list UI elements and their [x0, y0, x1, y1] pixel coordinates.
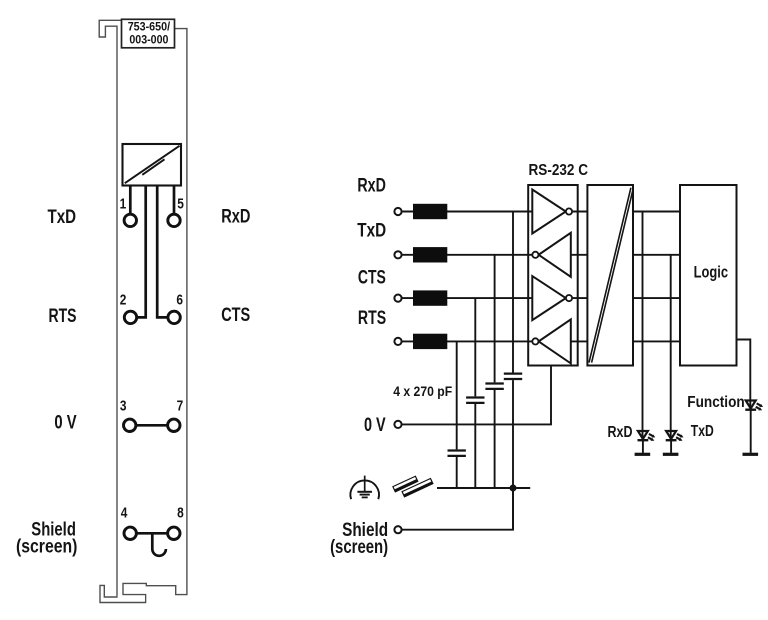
- filter L1 (RxD): [413, 204, 447, 219]
- earth ground symbol: [350, 476, 379, 500]
- svg-text:3: 3: [120, 398, 127, 415]
- pin 4: [124, 527, 136, 539]
- pin 1: [124, 214, 136, 226]
- svg-text:8: 8: [177, 505, 184, 522]
- capacitor C2 line (from CTS row): [474, 298, 476, 396]
- svg-text:RTS: RTS: [358, 307, 386, 329]
- ground bar TxD LED: [663, 453, 679, 456]
- terminal RTS: [394, 338, 401, 345]
- inverter bubble A2: [532, 252, 538, 258]
- LED RxD: [638, 431, 656, 453]
- wire RxD LED from row 1: [642, 212, 644, 440]
- wire Function LED from logic: [737, 340, 751, 410]
- svg-text:RS-232 C: RS-232 C: [529, 162, 589, 179]
- svg-text:753-650/: 753-650/: [128, 21, 171, 34]
- wire pin 4 to pin 8 (shield link): [137, 532, 167, 535]
- svg-text:4: 4: [121, 505, 128, 522]
- svg-text:0 V: 0 V: [54, 412, 76, 434]
- inverter bubble A3: [566, 295, 572, 301]
- terminal TxD: [394, 251, 401, 258]
- filter L4 (RTS): [413, 334, 447, 349]
- wire transformer to pin 1: [129, 186, 132, 214]
- foot white joint patch: [118, 595, 145, 601]
- inverter bubble A4: [532, 338, 538, 344]
- transformer T1 (module isolation symbol): [123, 144, 182, 186]
- wire RxD row: [401, 211, 680, 213]
- buffer A3 (CTS receiver): [532, 276, 566, 320]
- wire CTS row: [401, 297, 680, 299]
- svg-text:6: 6: [176, 292, 183, 309]
- terminal Shield: [394, 526, 401, 533]
- svg-text:RTS: RTS: [49, 305, 77, 327]
- IC U1 RS-232 driver block: [528, 185, 578, 366]
- shield clamp icon: [392, 475, 434, 497]
- wire pin 3 to pin 7 (0V link): [137, 424, 168, 427]
- svg-text:5: 5: [177, 196, 184, 213]
- junction dot: [510, 485, 517, 492]
- wire transformer to pin 2: [137, 186, 146, 318]
- wire 0V to RS-232 block: [401, 366, 551, 425]
- svg-text:CTS: CTS: [358, 266, 386, 288]
- LED Function: [745, 401, 763, 453]
- svg-text:RxD: RxD: [608, 424, 633, 441]
- buffer A2 (TxD driver): [539, 233, 571, 277]
- pin 2: [124, 311, 136, 323]
- pin 7: [168, 419, 180, 431]
- svg-text:(screen): (screen): [16, 535, 77, 557]
- wire TxD LED from row 2: [670, 255, 672, 440]
- svg-text:Logic: Logic: [694, 263, 728, 281]
- terminal CTS: [394, 295, 401, 302]
- inverter bubble A1: [566, 208, 572, 214]
- pin 5: [168, 214, 180, 226]
- svg-text:Function: Function: [687, 394, 744, 411]
- wire TxD row: [401, 254, 680, 256]
- buffer A1 (RxD receiver): [532, 190, 566, 234]
- capacitor C2: [466, 398, 484, 489]
- capacitor C1: [448, 451, 466, 489]
- logic block U2: [680, 185, 737, 366]
- capacitor C4 line (from RxD row): [512, 212, 514, 373]
- capacitor C1 line (from RTS row): [456, 341, 458, 449]
- LED TxD: [666, 431, 684, 453]
- svg-text:003-000: 003-000: [129, 33, 168, 46]
- svg-text:TxD: TxD: [357, 219, 386, 241]
- svg-text:4 x 270 pF: 4 x 270 pF: [393, 384, 452, 399]
- svg-text:RxD: RxD: [221, 205, 250, 227]
- svg-text:2: 2: [120, 292, 127, 309]
- label box 753-650/003-000: [122, 19, 175, 48]
- ground bar Function LED: [743, 453, 759, 456]
- svg-text:TxD: TxD: [691, 423, 714, 440]
- ground bar RxD LED: [635, 453, 651, 456]
- isolation transformer block: [587, 185, 633, 366]
- svg-text:(screen): (screen): [330, 536, 388, 558]
- svg-text:CTS: CTS: [221, 304, 250, 326]
- capacitor C3 line (from TxD row): [494, 255, 496, 383]
- svg-text:TxD: TxD: [48, 206, 77, 228]
- wire transformer to pin 5: [173, 186, 176, 214]
- svg-text:7: 7: [177, 398, 184, 415]
- wire RTS row: [401, 340, 680, 342]
- ground bus wire: [437, 487, 530, 489]
- pin 6: [168, 311, 180, 323]
- wire transformer to pin 6: [157, 186, 167, 318]
- svg-text:1: 1: [120, 196, 127, 213]
- pin 8: [168, 527, 180, 539]
- capacitor C4: [504, 374, 522, 530]
- filter L2 (TxD): [413, 247, 447, 262]
- svg-text:0 V: 0 V: [364, 415, 386, 436]
- buffer A4 (RTS driver): [539, 319, 571, 363]
- terminal RxD: [394, 208, 401, 215]
- filter L3 (CTS): [413, 290, 447, 305]
- terminal 0V: [394, 421, 401, 428]
- module body outline (753 terminal block side view): [99, 20, 187, 602]
- pin 3: [124, 419, 136, 431]
- wire Shield to junction: [401, 488, 513, 530]
- svg-text:RxD: RxD: [357, 175, 386, 197]
- shield hook symbol: [152, 533, 166, 555]
- capacitor C3: [485, 384, 503, 489]
